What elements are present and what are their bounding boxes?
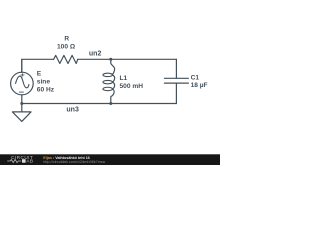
svg-text:un2: un2 <box>89 51 102 58</box>
node un3 junction dot left <box>20 102 23 105</box>
inductor L1 entry lead <box>111 59 115 74</box>
node un2 junction dot <box>109 58 112 61</box>
inductor L1 loop 1 <box>103 73 113 76</box>
wire bottom rail <box>22 103 177 105</box>
inductor L1 loop 3 <box>103 87 113 90</box>
svg-text:100 Ω: 100 Ω <box>57 44 76 51</box>
source sine wave <box>16 76 29 88</box>
svg-text:AB: AB <box>26 159 33 164</box>
svg-text:L1: L1 <box>120 75 128 82</box>
inductor L1 exit lead <box>111 89 114 104</box>
wire top rail right of resistor <box>78 58 177 60</box>
svg-text:18 µF: 18 µF <box>191 82 208 89</box>
source plus sign <box>21 74 24 77</box>
svg-text:http://circuitlab.com/c/2dmh98: http://circuitlab.com/c/2dmh98k7msa <box>43 160 106 164</box>
inductor L1 connector 1 <box>112 75 114 82</box>
wire source bottom stub <box>21 95 23 104</box>
capacitor C1 plates <box>164 78 188 83</box>
resistor R zigzag <box>54 55 78 63</box>
svg-text:500 mH: 500 mH <box>120 83 144 90</box>
svg-text:R: R <box>64 36 69 43</box>
svg-text:un3: un3 <box>66 106 79 113</box>
watermark bar <box>0 154 220 165</box>
svg-text:sine: sine <box>37 78 51 85</box>
wire top-left corner segment <box>22 59 54 72</box>
node un3 junction dot middle <box>109 102 112 105</box>
svg-text:60 Hz: 60 Hz <box>37 86 55 93</box>
source minus sign <box>19 91 23 93</box>
CircuitLab logo LAB block <box>22 159 26 163</box>
wire right side upper (to capacitor top plate) <box>175 59 177 78</box>
ground stub <box>21 104 23 112</box>
wire right side lower <box>175 83 177 103</box>
svg-text:C1: C1 <box>191 75 200 82</box>
inductor L1 loop 2 <box>103 80 113 83</box>
wire source top stub <box>21 59 23 72</box>
ground symbol triangle <box>12 112 31 122</box>
inductor L1 connector 2 <box>112 82 114 89</box>
CircuitLab logo zigzag <box>7 159 21 162</box>
voltage source E circle <box>11 72 34 95</box>
svg-text:E: E <box>37 70 42 77</box>
